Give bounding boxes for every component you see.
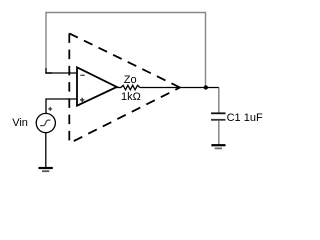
svg-text:Vin: Vin [12, 117, 28, 129]
svg-text:Zo: Zo [124, 74, 137, 86]
svg-text:1kΩ: 1kΩ [121, 91, 141, 103]
svg-text:C1 1uF: C1 1uF [227, 112, 263, 124]
